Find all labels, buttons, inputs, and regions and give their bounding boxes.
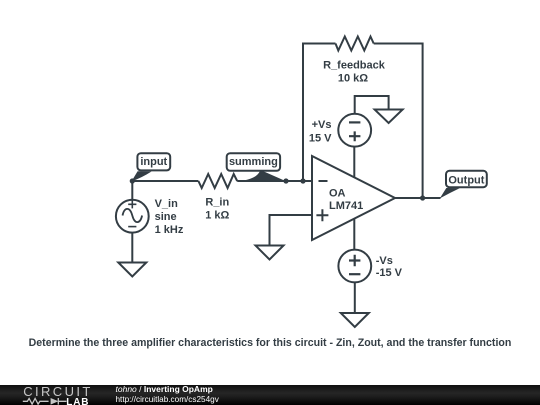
svg-text:+Vs: +Vs (312, 119, 332, 131)
svg-text:Determine the three amplifier: Determine the three amplifier characteri… (29, 337, 512, 349)
svg-text:-15 V: -15 V (376, 267, 403, 279)
footer meta text (116, 385, 219, 405)
svg-text:V_in: V_in (155, 198, 179, 210)
node summing junction (283, 178, 288, 183)
svg-text:1 kΩ: 1 kΩ (205, 209, 229, 221)
ground at noninverting input (256, 246, 284, 260)
op-amp OA LM741 (312, 156, 395, 240)
svg-text:-Vs: -Vs (376, 255, 393, 267)
wire feedback right riser (374, 44, 423, 199)
svg-text:R_in: R_in (205, 196, 229, 208)
resistor R_in (198, 174, 237, 188)
footer bar (0, 385, 540, 405)
CircuitLab logo (0, 385, 110, 405)
wire noninverting input to ground (270, 215, 313, 246)
ground below -Vs (341, 313, 369, 327)
wire V_in bottom lead (131, 233, 133, 263)
ground below V_in (118, 263, 146, 277)
wire R_in to op-amp inverting input (237, 180, 312, 182)
flag Output (440, 171, 487, 199)
node output junction (420, 195, 425, 200)
wire V_in top lead (131, 181, 133, 200)
svg-text:input: input (140, 156, 167, 168)
wire op-amp positive supply pin (353, 147, 355, 178)
node feedback junction (300, 178, 305, 183)
svg-text:OA: OA (329, 187, 346, 199)
voltage source +Vs (338, 114, 371, 147)
svg-text:summing: summing (229, 156, 278, 168)
svg-text:10 kΩ: 10 kΩ (338, 73, 368, 85)
svg-text:Output: Output (448, 174, 484, 186)
wire input node to R_in (132, 180, 198, 182)
flag input (132, 153, 171, 181)
wire -Vs to ground (354, 282, 356, 313)
voltage source V_in (116, 200, 149, 233)
wire op-amp output (395, 197, 441, 199)
svg-text:1 kHz: 1 kHz (155, 224, 184, 236)
resistor R_feedback (336, 37, 374, 51)
svg-text:R_feedback: R_feedback (323, 59, 386, 71)
svg-text:15 V: 15 V (309, 133, 332, 145)
svg-text:sine: sine (155, 211, 177, 223)
wire feedback left riser (303, 44, 336, 182)
ground above +Vs (375, 110, 403, 124)
wire +Vs to ground (355, 96, 389, 114)
svg-text:LAB: LAB (66, 396, 89, 405)
svg-text:LM741: LM741 (329, 200, 363, 212)
node input junction (130, 178, 135, 183)
wire op-amp negative supply pin (353, 219, 355, 250)
voltage source -Vs (338, 250, 371, 283)
flag summing (227, 153, 287, 181)
